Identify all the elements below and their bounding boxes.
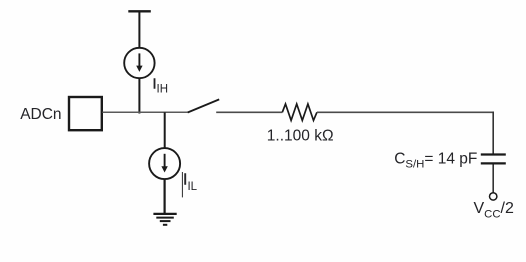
svg-text:IIL: IIL xyxy=(183,172,198,193)
svg-text:VCC/2: VCC/2 xyxy=(474,200,514,220)
svg-text:ADCn: ADCn xyxy=(20,106,61,123)
svg-text:1..100 kΩ: 1..100 kΩ xyxy=(267,127,334,144)
svg-text:CS/H= 14 pF: CS/H= 14 pF xyxy=(394,151,477,171)
svg-text:IIH: IIH xyxy=(153,76,169,95)
